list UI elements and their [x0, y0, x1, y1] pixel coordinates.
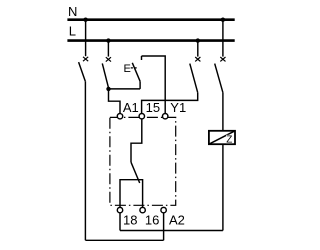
pushbutton E blade — [132, 63, 140, 82]
leader dashes for E — [131, 67, 137, 69]
wire: S4 down to load — [222, 93, 224, 131]
wire: up to terminal A2 — [163, 210, 165, 240]
wire: up to terminal 18 — [119, 210, 121, 230]
power rail L — [67, 39, 234, 42]
wire: S3 down and left to terminal 15 — [142, 93, 198, 117]
wire: pushbutton E to Y1 — [142, 56, 166, 116]
terminal A1 — [117, 114, 122, 119]
node on L rail (switch S2 tap) — [106, 38, 110, 42]
power rail N — [67, 18, 234, 21]
node on N rail (switch S1 tap) — [83, 18, 87, 22]
svg-text:A2: A2 — [169, 212, 185, 227]
svg-text:N: N — [68, 4, 77, 19]
wire: bottom horizontal to A2 — [85, 239, 163, 241]
terminal 16 — [140, 207, 145, 212]
svg-text:L: L — [69, 24, 76, 39]
pushbutton E riser — [139, 81, 141, 89]
switch S4 blade — [215, 64, 223, 93]
terminal A2 — [161, 207, 166, 212]
node on L rail (switch S3 tap) — [196, 38, 200, 42]
pushbutton E fixed contact stub — [141, 56, 143, 60]
load Z diagonal — [209, 131, 235, 144]
switch S3 blade — [190, 64, 198, 93]
relay contact: 15 elbow — [131, 116, 142, 162]
switch S2 contact cross — [106, 57, 111, 61]
switch S1 contact cross — [83, 57, 88, 61]
svg-text:18: 18 — [123, 212, 137, 227]
terminal 15 — [139, 114, 144, 119]
load Z rectangle — [209, 131, 235, 144]
switch S2 blade — [102, 63, 108, 87]
node on N rail (switch S4 tap) — [221, 18, 225, 22]
wire: load bottom horizontal to terminal 18 — [120, 230, 223, 232]
wire: load down — [222, 144, 224, 230]
junction node at S2 bottom — [106, 87, 110, 91]
switch S1 blade — [79, 62, 86, 81]
terminal 18 — [117, 207, 122, 212]
relay contact blade 15-18/16 — [131, 162, 140, 183]
svg-text:15: 15 — [146, 100, 160, 115]
switch S3 contact cross — [195, 57, 200, 61]
wire: S2 bottom to pushbutton E — [109, 88, 141, 90]
relay enclosure dashed box — [110, 117, 176, 205]
wire: N rail down to switch S4 — [222, 20, 224, 57]
wire: S2 bottom to A1 elbow — [109, 89, 121, 116]
terminal Y1 — [163, 114, 168, 119]
switch S4 contact cross — [220, 57, 225, 61]
svg-text:Y1: Y1 — [170, 100, 186, 115]
relay contact bracket 18-16 — [120, 180, 143, 210]
wire: switch S1 down — [84, 81, 86, 240]
svg-text:16: 16 — [145, 212, 159, 227]
wire: N rail down to switch S1 — [85, 20, 87, 57]
svg-text:E: E — [124, 63, 131, 75]
svg-text:A1: A1 — [123, 100, 139, 115]
svg-text:Z: Z — [226, 135, 232, 146]
wire: L rail down to switch S2 — [107, 41, 109, 57]
wire: L rail down to switch S3 — [197, 41, 199, 57]
